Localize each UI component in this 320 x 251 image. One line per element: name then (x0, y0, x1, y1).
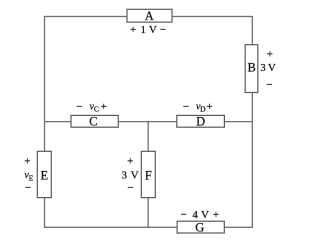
element G (177, 220, 224, 234)
svg-text:−: − (160, 24, 166, 36)
svg-text:4: 4 (192, 209, 198, 221)
svg-text:−: − (183, 101, 189, 113)
svg-text:V: V (268, 62, 276, 74)
label + 3 V - right of element B (260, 49, 276, 92)
svg-text:−: − (76, 101, 82, 113)
svg-text:G: G (195, 220, 204, 234)
svg-text:D: D (200, 105, 206, 114)
outer loop wire (45, 17, 253, 228)
svg-text:−: − (266, 79, 272, 91)
label + 1 V - under element A (130, 24, 166, 36)
element B (245, 45, 258, 93)
svg-text:+: + (101, 101, 107, 113)
element F (141, 151, 155, 197)
svg-text:V: V (131, 169, 139, 181)
middle horizontal wire (node row between C and D) (45, 121, 253, 123)
svg-text:3: 3 (122, 169, 128, 181)
svg-text:V: V (149, 24, 157, 36)
label - vC + above element C (76, 101, 107, 113)
svg-text:+: + (206, 101, 212, 113)
svg-text:E: E (40, 169, 48, 183)
svg-text:D: D (196, 115, 205, 129)
svg-text:+: + (130, 24, 136, 36)
svg-text:V: V (201, 209, 209, 221)
label - vD + above element D (183, 101, 213, 113)
svg-text:+: + (24, 155, 30, 167)
label - 4 V + above element G (180, 209, 219, 221)
element D (177, 115, 225, 129)
svg-text:B: B (248, 61, 256, 75)
svg-text:+: + (267, 49, 273, 61)
label + vE - left of element E (24, 155, 33, 194)
svg-text:−: − (127, 182, 133, 194)
middle vertical wire (branch of F) (147, 122, 149, 228)
element A (127, 9, 172, 23)
svg-text:1: 1 (141, 24, 147, 36)
svg-text:C: C (94, 105, 99, 114)
label + 3 V - left of element F (122, 155, 139, 194)
svg-text:A: A (145, 9, 154, 23)
svg-text:F: F (145, 169, 152, 183)
svg-text:−: − (180, 209, 186, 221)
svg-text:C: C (89, 115, 97, 129)
svg-text:+: + (213, 209, 219, 221)
element C (71, 115, 118, 129)
svg-text:3: 3 (260, 62, 266, 74)
element E (37, 151, 51, 197)
svg-text:+: + (127, 155, 133, 167)
svg-text:−: − (25, 182, 31, 194)
